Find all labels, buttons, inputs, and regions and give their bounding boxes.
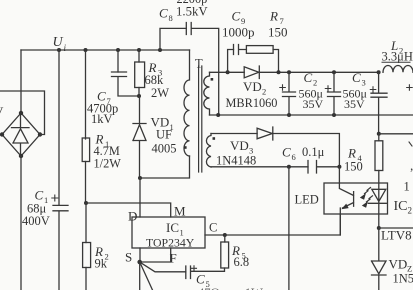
wire output rail top [259, 71, 378, 73]
wire R4 node to edge [379, 133, 413, 135]
opto LED diode [368, 183, 386, 228]
svg-text:C: C [352, 70, 361, 85]
node opto cathode junction [377, 226, 381, 230]
svg-text:400V: 400V [22, 214, 50, 228]
resistor R3 [135, 50, 145, 96]
svg-text:6.8: 6.8 [234, 255, 250, 269]
svg-text:D: D [128, 209, 137, 224]
pin label C [209, 221, 217, 235]
label R1 value [94, 132, 122, 171]
plus sign C2 [280, 85, 286, 90]
label LTV8 [381, 228, 412, 243]
capacitor C1 [53, 205, 68, 290]
zener diode VDz [372, 228, 387, 290]
transformer core [199, 66, 202, 172]
label R7 value [268, 9, 288, 40]
diode VD2 [244, 66, 259, 79]
wire S to C5 [140, 262, 186, 272]
label C7 value [87, 89, 118, 127]
svg-text:1.5kV: 1.5kV [176, 5, 208, 19]
svg-text:1/2W: 1/2W [94, 156, 122, 170]
label C1 value [22, 188, 50, 228]
label VD3 value [216, 138, 256, 167]
resistor R1 [82, 138, 89, 203]
svg-text:R: R [269, 9, 278, 24]
node drain junction [138, 176, 142, 180]
wire M divider [86, 203, 171, 217]
svg-text:IC: IC [394, 199, 408, 214]
label C9 value [222, 9, 255, 40]
capacitor C6 [308, 161, 339, 174]
transformer bias winding [206, 134, 211, 168]
wire C8 branch [160, 28, 186, 50]
svg-text:MBR1060: MBR1060 [226, 96, 278, 110]
pin label F [170, 251, 177, 266]
junction dots bridge vertices [0, 111, 42, 158]
svg-text:LTV8: LTV8 [381, 228, 412, 243]
svg-text:C: C [209, 221, 217, 235]
wire S down [139, 262, 141, 290]
capacitor C2 [283, 72, 296, 115]
svg-text:4005: 4005 [152, 142, 177, 156]
resistor R7 [246, 46, 278, 73]
label T [195, 57, 203, 71]
svg-text:8: 8 [169, 13, 173, 23]
svg-text:C: C [35, 188, 44, 203]
label R2 value [94, 244, 109, 270]
underline L2 [382, 61, 410, 63]
svg-text:47Ω: 47Ω [198, 286, 220, 290]
wire AC input right vertex [0, 91, 45, 135]
svg-text:1000p: 1000p [222, 25, 255, 40]
capacitor C5 [186, 266, 225, 279]
node R1-R2 junction [84, 201, 88, 205]
label C6 value [282, 145, 325, 163]
svg-text:U: U [53, 35, 64, 50]
svg-text:6: 6 [292, 152, 296, 162]
label R4 value [344, 146, 363, 174]
junction dots top rail [57, 48, 162, 52]
IC1 TOP234Y chip [132, 217, 205, 248]
label R3 value [145, 60, 170, 100]
svg-text:—•1W: —•1W [227, 286, 263, 290]
capacitor C3 [328, 72, 341, 115]
inductor L2 [383, 66, 413, 73]
capacitor C7 [112, 72, 140, 96]
svg-text:1: 1 [404, 180, 410, 194]
svg-text:UF: UF [156, 128, 172, 142]
node C6 junction [287, 165, 291, 169]
opto light arrows [365, 188, 373, 202]
wire S pin [139, 248, 141, 262]
capacitor C8 [186, 23, 218, 116]
diode inside bridge [12, 115, 30, 154]
label IC1 [146, 220, 195, 250]
wire S diagonal [140, 262, 153, 290]
node opto collector junction [337, 165, 341, 169]
bridge rectifier [2, 113, 40, 156]
label L2 value [382, 38, 413, 64]
label C8 value [159, 0, 208, 23]
label cropped 1 [404, 166, 413, 194]
svg-text:R: R [347, 146, 356, 161]
transformer T primary winding [184, 50, 190, 156]
node R5 junction [223, 233, 227, 237]
wire bias bottom [211, 166, 308, 168]
svg-text:2W: 2W [151, 86, 169, 100]
label VD1 value [151, 115, 177, 156]
svg-text:’’: ’’ [410, 166, 413, 180]
junction dots ground rail [216, 113, 336, 117]
wire R1 branch [85, 50, 87, 139]
svg-text:3.3μH: 3.3μH [382, 50, 413, 64]
svg-text:150: 150 [344, 159, 363, 173]
node clamp junction [137, 94, 141, 98]
wire C7 branch [117, 50, 119, 72]
plus sign edge cap [407, 85, 413, 90]
svg-text:1kV: 1kV [91, 112, 113, 126]
svg-text:C: C [159, 6, 168, 21]
label R5 value [231, 243, 249, 269]
optocoupler IC2 box [324, 183, 388, 214]
wire drain to D pin [139, 178, 141, 217]
label C2 value [299, 70, 324, 111]
svg-text:2: 2 [262, 87, 266, 97]
label LED [295, 192, 319, 206]
svg-text:0.1μ: 0.1μ [302, 145, 325, 159]
pin label D [128, 209, 137, 224]
svg-text:M: M [174, 204, 186, 219]
svg-text:S: S [125, 250, 132, 265]
pin label S [125, 250, 132, 265]
wire C pin [205, 214, 340, 235]
svg-text:1N5: 1N5 [393, 272, 413, 286]
bias phase dot [213, 137, 216, 140]
svg-text:35V: 35V [303, 97, 324, 111]
resistor R2 [83, 203, 91, 290]
mark cropped at edge [409, 142, 412, 146]
svg-text:C: C [304, 70, 313, 85]
node C9 branch junction [226, 70, 230, 74]
label C3 value [343, 70, 367, 111]
wire top rail Ui [21, 49, 190, 51]
secondary phase dot [211, 78, 214, 81]
plus sign C3 [325, 86, 331, 91]
label C5 [196, 272, 210, 290]
capacitor C9 [234, 45, 247, 55]
label IC2 [394, 199, 413, 216]
svg-text:IC: IC [166, 220, 179, 235]
node R4 top junction [377, 132, 381, 136]
label VD2 value [226, 79, 278, 110]
wire bridge bottom lead [20, 156, 22, 290]
node Ui label [53, 35, 67, 53]
svg-text:VD: VD [389, 257, 408, 272]
resistor R5 [221, 235, 229, 268]
wire VD3 cathode [273, 134, 340, 167]
wire bias return vertical [288, 167, 290, 290]
transformer secondary winding [204, 72, 210, 115]
wire bias top to VD3 [211, 133, 257, 135]
svg-text:1N4148: 1N4148 [216, 153, 256, 167]
node S junction [137, 260, 142, 265]
plus sign C4 [370, 87, 376, 92]
diode VD3 [257, 127, 273, 140]
wire C9 snubber branch [228, 50, 234, 73]
wire secondary top [210, 71, 245, 73]
svg-text:C: C [232, 9, 241, 24]
opto emitter arrow [341, 204, 348, 210]
resistor R4 [375, 134, 383, 183]
junction dots output rail [277, 70, 381, 74]
capacitor C4 [371, 72, 387, 134]
svg-text:C: C [196, 272, 205, 287]
label VDz value [389, 257, 413, 286]
plus sign C5 [192, 266, 197, 271]
svg-text:LED: LED [295, 192, 319, 206]
wire F pin [140, 248, 171, 262]
svg-text:C: C [282, 145, 291, 160]
wire ground rail [210, 114, 413, 116]
opto phototransistor [339, 167, 353, 235]
svg-text:9k: 9k [95, 256, 108, 270]
svg-text:150: 150 [268, 25, 288, 40]
faint print bleed text [198, 286, 263, 290]
svg-text:35V: 35V [344, 97, 365, 111]
svg-text:VD: VD [230, 138, 249, 153]
wire C1 branch [58, 50, 60, 205]
svg-text:2: 2 [408, 206, 413, 216]
svg-text:68k: 68k [145, 73, 165, 87]
pin label M [174, 204, 186, 219]
label V (cropped) [0, 104, 4, 119]
wire bridge top lead [20, 50, 22, 113]
primary phase dot [184, 146, 187, 149]
plus sign C1 [52, 195, 58, 201]
wire opto cathode to edge [379, 227, 413, 229]
svg-text:VD: VD [243, 79, 262, 94]
diode VD1 [133, 96, 146, 178]
wire primary bottom to drain [140, 156, 190, 178]
